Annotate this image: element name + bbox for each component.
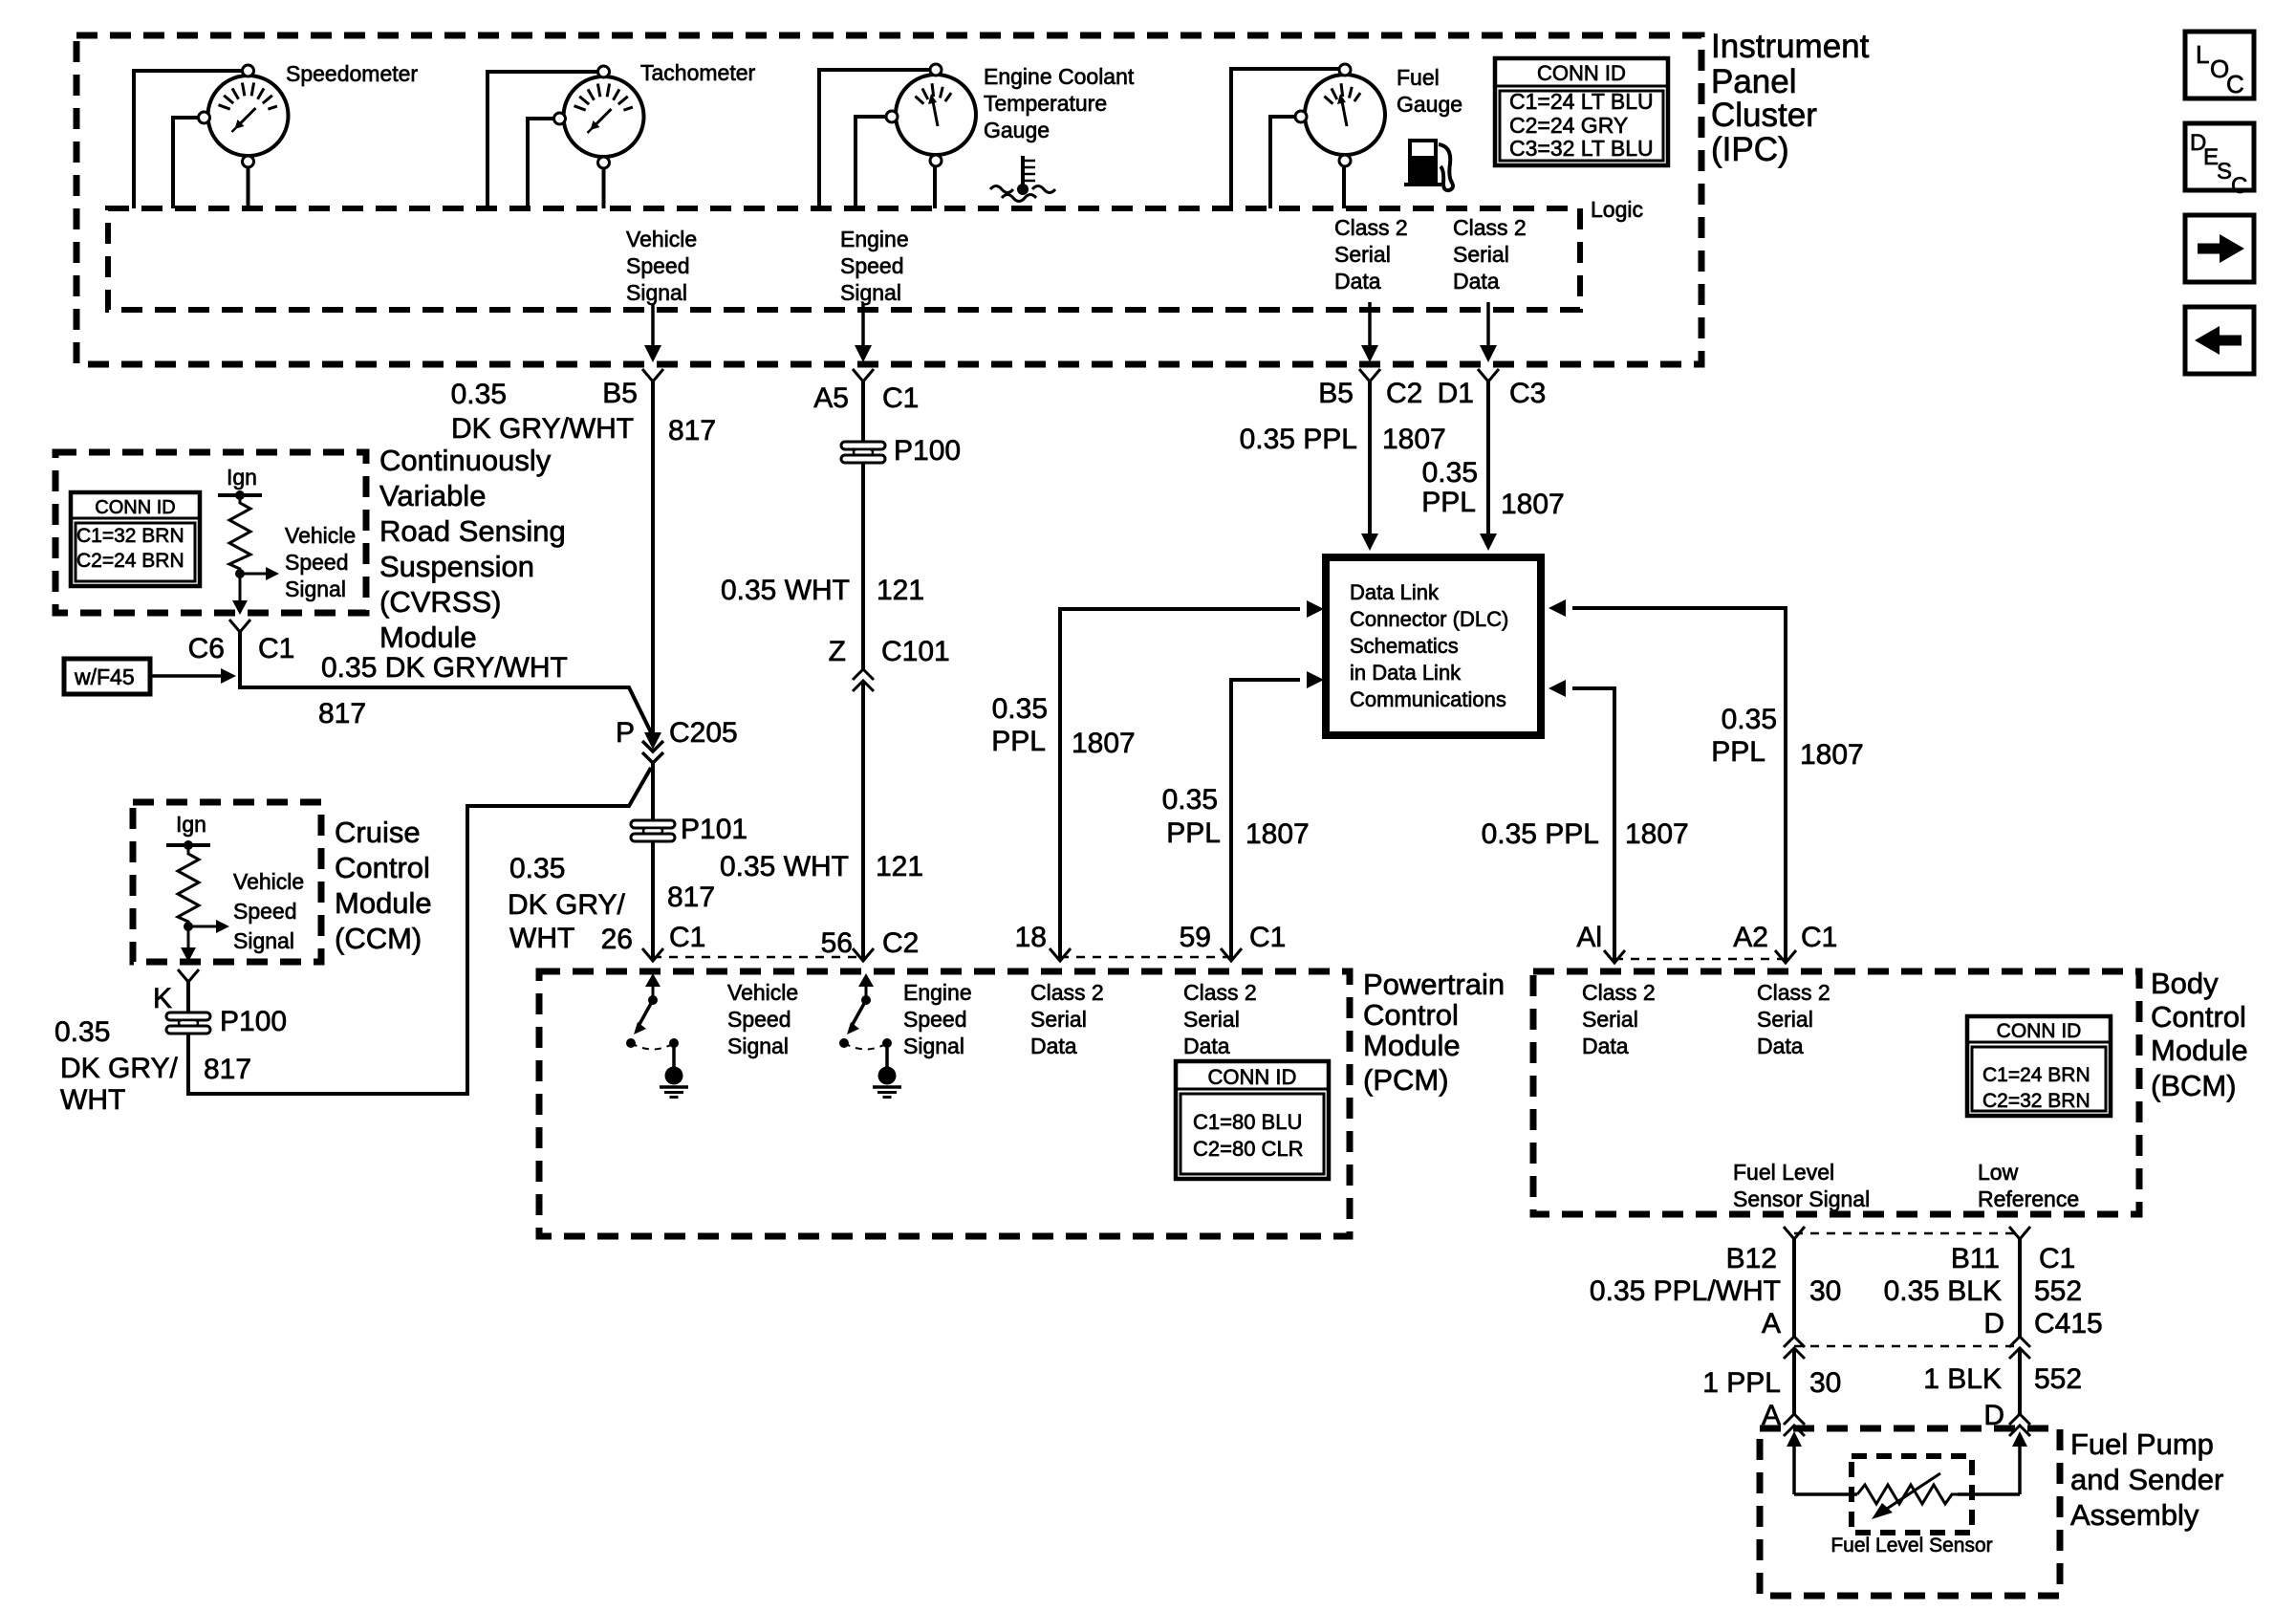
svg-text:18: 18 [1015, 922, 1047, 953]
svg-text:59: 59 [1180, 922, 1211, 953]
wire 1807 BCM pin A2 to DLC [1572, 608, 1786, 963]
svg-text:D: D [1983, 1308, 2004, 1339]
wire 817 from CCM K to P100 [186, 982, 190, 1012]
svg-text:Logic: Logic [1591, 197, 1643, 222]
component box: Fuel Level Sensor [1852, 1456, 1972, 1533]
block: w/F45 reference [64, 659, 150, 694]
svg-text:Vehicle: Vehicle [285, 523, 356, 548]
svg-text:P101: P101 [681, 814, 747, 845]
svg-text:PPL: PPL [1166, 817, 1221, 849]
wire speedometer top terminal to logic box [134, 71, 242, 208]
svg-text:0.35 PPL: 0.35 PPL [1482, 818, 1599, 850]
connector C205 chevrons (pin P) [642, 741, 663, 763]
wire 1807 BCM pin A1 to DLC [1572, 688, 1614, 963]
svg-text:0.35 PPL/WHT: 0.35 PPL/WHT [1590, 1275, 1781, 1307]
wire 817 from CVRSS C6 to C205 junction [240, 632, 651, 732]
label 0.35 PPL stacked (pin A2 wire) [1711, 704, 1777, 768]
svg-text:C1: C1 [669, 922, 705, 953]
svg-text:Fuel Pump: Fuel Pump [2070, 1427, 2214, 1461]
svg-text:C3: C3 [1509, 378, 1546, 409]
ground (vehicle speed switch) [660, 1067, 688, 1098]
label 0.35 PPL (pin 18 wire) [991, 693, 1048, 757]
svg-text:Speed: Speed [626, 253, 690, 278]
svg-text:Al: Al [1576, 922, 1602, 953]
label Class 2 Serial Data (BCM, pin A1) [1582, 980, 1656, 1058]
svg-text:C101: C101 [881, 636, 950, 667]
svg-text:Data Link: Data Link [1350, 580, 1440, 604]
svg-text:817: 817 [667, 882, 715, 913]
svg-text:Tachometer: Tachometer [640, 60, 756, 85]
svg-text:Engine: Engine [840, 227, 909, 251]
svg-text:Serial: Serial [1183, 1007, 1240, 1032]
gauge: Speedometer [199, 65, 289, 167]
label 0.35 PPL (pin 59 wire) [1162, 784, 1221, 849]
svg-text:Serial: Serial [1582, 1007, 1638, 1032]
connector Y at IPC pin D1 / C3 [1478, 369, 1499, 381]
svg-text:C1=32 BRN: C1=32 BRN [76, 525, 184, 547]
svg-text:CONN ID: CONN ID [1537, 61, 1626, 85]
svg-text:552: 552 [2034, 1363, 2082, 1395]
svg-text:Signal: Signal [626, 280, 687, 305]
wire 121 from C101 to PCM [861, 681, 865, 960]
svg-text:Low: Low [1978, 1160, 2019, 1185]
module title IPC [1711, 28, 1870, 168]
svg-text:Temperature: Temperature [984, 91, 1107, 116]
arrow from w/F45 to wire 817 [150, 674, 223, 678]
svg-text:Data: Data [1453, 269, 1500, 294]
svg-text:Module: Module [335, 886, 432, 920]
svg-text:817: 817 [204, 1054, 251, 1085]
svg-text:Signal: Signal [285, 577, 346, 601]
switch: vehicle speed signal input (PCM) [626, 973, 679, 1067]
svg-text:1807: 1807 [1625, 818, 1689, 850]
svg-text:C2=32 BRN: C2=32 BRN [1982, 1090, 2090, 1112]
svg-text:Control: Control [2151, 1000, 2246, 1034]
svg-text:Instrument: Instrument [1711, 28, 1870, 65]
svg-text:Class 2: Class 2 [1757, 980, 1830, 1005]
label Vehicle Speed Signal (CCM) [233, 869, 304, 953]
legend box DESC [2185, 123, 2254, 199]
CONN ID table (PCM): C1=80 BLU, C2=80 CLR [1176, 1061, 1329, 1179]
wire 817 from P101 to PCM [651, 841, 655, 960]
label 0.35 PPL stacked (wire to DLC right) [1421, 457, 1478, 518]
svg-text:Serial: Serial [1453, 242, 1509, 267]
label Class 2 Serial Data (PCM, pin 59) [1183, 980, 1257, 1058]
wire ECT gauge left terminal to logic box [856, 117, 886, 208]
svg-text:Speed: Speed [233, 899, 297, 924]
gauge: Fuel Gauge [1295, 64, 1385, 166]
wire fuel gauge top terminal to logic box [1231, 69, 1339, 208]
svg-text:B5: B5 [602, 378, 638, 409]
connector Y at PCM pin 26 [642, 948, 663, 961]
svg-text:C2=24 BRN: C2=24 BRN [76, 550, 184, 572]
wire 817 from CCM P100 to C205 junction [188, 768, 651, 1094]
label Class 2 Serial Data (IPC, right) [1453, 215, 1527, 294]
label Vehicle Speed Signal (IPC logic output) [626, 227, 697, 305]
svg-text:1807: 1807 [1245, 818, 1310, 850]
svg-text:C2=80 CLR: C2=80 CLR [1193, 1137, 1304, 1161]
svg-text:w/F45: w/F45 [74, 664, 135, 689]
label 0.35 DK GRY/ WHT (left of wire to PCM) [508, 853, 625, 954]
arrow: vehicle speed signal leaves CCM [187, 926, 190, 949]
svg-text:(IPC): (IPC) [1711, 131, 1789, 168]
wire tachometer bottom terminal to logic box [602, 168, 606, 208]
svg-text:C415: C415 [2034, 1308, 2103, 1339]
svg-text:Gauge: Gauge [1397, 92, 1462, 117]
svg-text:Assembly: Assembly [2070, 1498, 2199, 1532]
arrow into DLC left lower [1307, 671, 1324, 688]
label Vehicle Speed Signal (PCM) [727, 980, 798, 1058]
svg-text:0.35: 0.35 [992, 693, 1048, 725]
wire 121 from IPC to P100 [861, 381, 865, 442]
module title Fuel Pump and Sender Assembly [2070, 1427, 2223, 1532]
svg-text:Ign: Ign [227, 465, 257, 490]
link between PCM pins 18 and 59 [1060, 956, 1231, 959]
module box: Fuel Pump and Sender Assembly [1760, 1428, 2060, 1596]
connector C101 chevrons [853, 669, 874, 691]
arrow: vehicle speed signal leaves CVRSS [239, 574, 242, 602]
wire 817 from IPC to C205 [651, 381, 655, 732]
svg-text:Sensor Signal: Sensor Signal [1733, 1186, 1870, 1211]
svg-text:0.35: 0.35 [509, 853, 565, 884]
block: Data Link Connector (DLC) reference [1326, 557, 1541, 735]
wire tachometer top terminal to logic box [487, 72, 597, 208]
svg-text:1807: 1807 [1501, 489, 1565, 520]
svg-text:P100: P100 [894, 435, 961, 467]
label Class 2 Serial Data (PCM, pin 18) [1030, 980, 1104, 1058]
svg-text:0.35 WHT: 0.35 WHT [720, 851, 849, 882]
svg-text:(PCM): (PCM) [1363, 1063, 1449, 1097]
module box: Instrument Panel Cluster (IPC) [76, 35, 1701, 364]
svg-text:Control: Control [335, 851, 430, 884]
connector Y at PCM pin 59 [1221, 948, 1242, 961]
svg-text:in Data Link: in Data Link [1350, 661, 1462, 685]
svg-text:0.35: 0.35 [451, 379, 507, 410]
icon: coolant temperature symbol [990, 156, 1055, 202]
svg-text:Speed: Speed [285, 550, 349, 575]
svg-text:Panel: Panel [1711, 63, 1797, 100]
svg-text:PPL: PPL [1421, 487, 1476, 518]
arrow into DLC right lower [1549, 680, 1566, 697]
svg-text:CONN ID: CONN ID [95, 497, 175, 518]
svg-text:PPL: PPL [991, 726, 1046, 757]
grommet P100 (CCM wire) [166, 1012, 210, 1034]
wire 1807 PCM pin 18 to DLC [1060, 609, 1300, 961]
svg-text:Data: Data [1582, 1034, 1629, 1058]
svg-text:552: 552 [2034, 1275, 2082, 1307]
node Ign rail (CVRSS) [218, 490, 262, 500]
svg-text:Signal: Signal [233, 928, 294, 953]
svg-text:K: K [153, 983, 172, 1014]
module title BCM [2151, 967, 2248, 1102]
wire ECT gauge bottom terminal to logic box [933, 166, 937, 208]
svg-text:P: P [616, 717, 635, 749]
connector Y at IPC pin B5 / C2 [1359, 369, 1380, 381]
svg-text:0.35 PPL: 0.35 PPL [1240, 424, 1357, 455]
label Low Reference (BCM) [1978, 1160, 2079, 1211]
arrow into DLC top right [1480, 533, 1497, 551]
svg-text:CONN ID: CONN ID [1997, 1020, 2082, 1042]
svg-text:56: 56 [821, 927, 853, 959]
svg-text:30: 30 [1809, 1275, 1841, 1307]
svg-text:Engine Coolant: Engine Coolant [984, 64, 1135, 89]
svg-text:0.35: 0.35 [1422, 457, 1478, 489]
label 0.35 DK GRY/ WHT (CCM wire) [54, 1016, 178, 1116]
svg-text:C1: C1 [1249, 922, 1286, 953]
connector Y at IPC for circuit 817 (pin B5) [642, 369, 663, 381]
svg-text:C2: C2 [882, 927, 919, 959]
svg-text:A: A [1762, 1308, 1781, 1339]
arrow: class 2 serial data leaves IPC (right) [1486, 302, 1490, 347]
svg-text:C2=24 GRY: C2=24 GRY [1509, 113, 1628, 138]
svg-text:Cluster: Cluster [1711, 97, 1817, 134]
svg-text:DK GRY/WHT: DK GRY/WHT [451, 413, 634, 445]
svg-text:Ign: Ign [176, 812, 206, 837]
svg-text:C1: C1 [258, 633, 294, 664]
svg-text:1807: 1807 [1072, 728, 1136, 759]
wire 30 from BCM B12 to C415 [1792, 1239, 1796, 1337]
arrow into DLC top left [1361, 533, 1378, 551]
wire 30 from C415 to fuel pump assembly [1792, 1348, 1796, 1414]
svg-text:Vehicle: Vehicle [626, 227, 697, 251]
svg-text:C1=24 LT BLU: C1=24 LT BLU [1509, 89, 1654, 114]
svg-text:1807: 1807 [1800, 739, 1864, 771]
label Engine Coolant Temperature Gauge [984, 64, 1135, 142]
link between PCM pins 26 and 56 [653, 956, 863, 959]
wire ECT gauge top terminal to logic box [819, 70, 930, 208]
arrow into DLC right upper [1549, 599, 1566, 617]
svg-text:Class 2: Class 2 [1334, 215, 1408, 240]
svg-text:A2: A2 [1733, 922, 1768, 953]
svg-text:Signal: Signal [840, 280, 901, 305]
svg-text:Body: Body [2151, 967, 2219, 1000]
svg-text:C1: C1 [882, 382, 919, 414]
svg-text:121: 121 [877, 575, 924, 606]
svg-text:121: 121 [876, 851, 923, 882]
connector C415 chevrons (left) [1784, 1337, 1805, 1359]
arrow: class 2 serial data leaves IPC (left) [1368, 302, 1372, 347]
svg-text:CONN ID: CONN ID [1208, 1065, 1297, 1089]
svg-text:A5: A5 [813, 382, 849, 414]
junction dot (CCM signal) [184, 922, 193, 931]
wire 1807 PCM pin 59 to DLC [1231, 680, 1300, 961]
svg-text:C3=32 LT BLU: C3=32 LT BLU [1509, 136, 1654, 161]
svg-text:Module: Module [379, 620, 477, 654]
svg-text:(BCM): (BCM) [2151, 1069, 2237, 1102]
svg-text:817: 817 [668, 415, 716, 446]
svg-text:1 BLK: 1 BLK [1923, 1363, 2002, 1395]
CONN ID table (CVRSS): C1=32 BRN, C2=24 BRN [71, 492, 200, 586]
module title CCM [335, 816, 432, 955]
link between BCM pins B12 and B11 [1794, 1232, 2020, 1235]
arrow: vehicle speed signal leaves IPC [651, 304, 655, 347]
arrow into C205 [644, 732, 661, 750]
svg-text:Communications: Communications [1350, 687, 1506, 711]
svg-text:C: C [2231, 173, 2247, 199]
label Fuel Gauge [1397, 65, 1462, 117]
svg-text:C6: C6 [188, 633, 225, 664]
svg-text:C205: C205 [669, 717, 738, 749]
svg-text:Speed: Speed [903, 1007, 967, 1032]
svg-text:Speedometer: Speedometer [286, 61, 418, 86]
connector Y at BCM pin A2 [1775, 950, 1796, 963]
svg-text:DK GRY/: DK GRY/ [508, 889, 625, 921]
svg-text:0.35 DK GRY/WHT: 0.35 DK GRY/WHT [321, 652, 568, 684]
svg-text:Variable: Variable [379, 479, 486, 512]
svg-text:26: 26 [601, 924, 633, 955]
wire 552 from C415 to fuel pump assembly [2018, 1348, 2022, 1414]
svg-text:C1=24 BRN: C1=24 BRN [1982, 1064, 2090, 1086]
CONN ID table (BCM): C1=24 BRN, C2=32 BRN [1967, 1016, 2111, 1116]
connector chevrons at fuel pump pin D [2009, 1414, 2030, 1436]
svg-text:Vehicle: Vehicle [727, 980, 798, 1005]
svg-text:(CVRSS): (CVRSS) [379, 585, 501, 619]
svg-text:Data: Data [1183, 1034, 1230, 1058]
label Class 2 Serial Data (IPC, left) [1334, 215, 1408, 294]
svg-text:Class 2: Class 2 [1582, 980, 1656, 1005]
connector Y at CVRSS pin C6 / C1 [229, 620, 250, 632]
svg-text:C1: C1 [1801, 922, 1837, 953]
svg-text:Fuel Level Sensor: Fuel Level Sensor [1830, 1535, 1992, 1557]
svg-text:0.35: 0.35 [1722, 704, 1777, 735]
svg-text:0.35: 0.35 [1162, 784, 1218, 816]
svg-text:Serial: Serial [1757, 1007, 1813, 1032]
svg-text:B5: B5 [1318, 378, 1354, 409]
connector Y at BCM pin B11 [2009, 1227, 2030, 1239]
svg-text:Speed: Speed [840, 253, 904, 278]
module title PCM [1363, 968, 1505, 1097]
svg-text:Module: Module [2151, 1034, 2248, 1067]
svg-text:817: 817 [318, 698, 366, 729]
svg-text:Engine: Engine [903, 980, 972, 1005]
svg-text:Serial: Serial [1334, 242, 1391, 267]
svg-text:Road Sensing: Road Sensing [379, 514, 566, 548]
wire 1807 from IPC to DLC (right) [1486, 381, 1490, 533]
svg-text:C1: C1 [2039, 1243, 2075, 1274]
resistor (CVRSS pull-up) [229, 495, 250, 574]
gauge: Tachometer [554, 66, 644, 168]
svg-text:Speed: Speed [727, 1007, 791, 1032]
icon: fuel pump symbol [1404, 139, 1453, 190]
svg-text:Connector (DLC): Connector (DLC) [1350, 607, 1508, 631]
svg-text:1 PPL: 1 PPL [1702, 1367, 1781, 1399]
arrow into fuel pump (pin D side) [2018, 1445, 2022, 1494]
grommet P101 [631, 820, 675, 841]
svg-text:Data: Data [1757, 1034, 1804, 1058]
svg-text:Serial: Serial [1030, 1007, 1087, 1032]
svg-text:Signal: Signal [727, 1034, 789, 1058]
svg-text:Continuously: Continuously [379, 444, 552, 477]
svg-text:Module: Module [1363, 1029, 1461, 1062]
arrow into DLC left upper [1307, 600, 1324, 618]
wire fuel gauge bottom terminal to logic box [1342, 165, 1346, 208]
svg-text:and Sender: and Sender [2070, 1463, 2223, 1496]
svg-text:B11: B11 [1951, 1243, 2000, 1274]
svg-text:Data: Data [1334, 269, 1381, 294]
label Engine Speed Signal (IPC logic output) [840, 227, 909, 305]
svg-text:(CCM): (CCM) [335, 922, 422, 955]
legend box forward arrow [2185, 215, 2254, 282]
grommet P100 (engine speed wire) [841, 442, 885, 463]
wire 552 from BCM B11 to C415 [2018, 1239, 2022, 1337]
svg-text:Fuel: Fuel [1397, 65, 1440, 90]
wire 121 from P100 to C101 [861, 463, 865, 669]
svg-text:Vehicle: Vehicle [233, 869, 304, 894]
svg-text:B12: B12 [1726, 1243, 1777, 1274]
switch: engine speed signal input (PCM) [839, 973, 892, 1067]
junction dot (CVRSS signal) [235, 569, 245, 578]
svg-text:L: L [2196, 40, 2209, 69]
arrow to Vehicle Speed Signal label (CCM) [188, 925, 218, 928]
link between BCM pins A1 and A2 [1614, 958, 1786, 961]
svg-text:Gauge: Gauge [984, 118, 1050, 142]
svg-text:C2: C2 [1386, 378, 1422, 409]
svg-text:Data: Data [1030, 1034, 1077, 1058]
svg-text:C1=80 BLU: C1=80 BLU [1193, 1110, 1302, 1134]
svg-text:P100: P100 [220, 1006, 287, 1037]
label Class 2 Serial Data (BCM, pin A2) [1757, 980, 1830, 1058]
variable resistor: fuel level sensor element [1857, 1473, 1958, 1519]
ground (engine speed switch) [873, 1067, 901, 1098]
svg-text:30: 30 [1809, 1367, 1841, 1399]
wire 1807 from IPC to DLC (left) [1368, 381, 1372, 533]
svg-text:C: C [2226, 70, 2244, 98]
label Engine Speed Signal (PCM) [903, 980, 972, 1058]
svg-text:Class 2: Class 2 [1183, 980, 1257, 1005]
wire tachometer left terminal to logic box [528, 119, 553, 208]
svg-text:Signal: Signal [903, 1034, 964, 1058]
arrow: engine speed signal leaves IPC [861, 304, 865, 347]
connector C415 chevrons (right) [2009, 1337, 2030, 1359]
svg-text:Fuel Level: Fuel Level [1733, 1160, 1834, 1185]
svg-text:S: S [2217, 159, 2232, 185]
svg-text:WHT: WHT [509, 923, 574, 954]
connector Y at BCM pin B12 [1784, 1227, 1805, 1239]
svg-text:WHT: WHT [60, 1084, 125, 1116]
svg-text:Cruise: Cruise [335, 816, 421, 849]
wire speedometer bottom terminal to logic box [247, 167, 250, 208]
connector Y at PCM pin 18 [1050, 948, 1071, 961]
link at C415 [1794, 1345, 2020, 1348]
arrow to Vehicle Speed Signal label (CVRSS) [240, 573, 268, 576]
svg-text:0.35: 0.35 [54, 1016, 110, 1048]
connector Y at IPC for circuit 121 (pin A5) [853, 369, 874, 381]
svg-text:Suspension: Suspension [379, 550, 534, 583]
legend box back arrow [2185, 307, 2254, 374]
connector Y at CCM pin K [178, 969, 199, 982]
svg-text:Control: Control [1363, 998, 1459, 1032]
module box: Body Control Module (BCM) [1533, 971, 2139, 1214]
resistor (CCM pull-up) [178, 845, 199, 926]
wire to fuel level sensor (right) [1958, 1492, 2020, 1496]
module box: CVRSS [55, 452, 366, 613]
connector Y at BCM pin A1 [1604, 950, 1625, 963]
svg-text:Reference: Reference [1978, 1186, 2079, 1211]
logic box inside IPC [108, 208, 1580, 310]
svg-text:D1: D1 [1438, 378, 1474, 409]
wire 817 from C205 to P101 [651, 762, 655, 820]
svg-text:0.35 BLK: 0.35 BLK [1884, 1275, 2002, 1307]
wire fuel gauge left terminal to logic box [1270, 117, 1295, 208]
svg-text:1807: 1807 [1382, 424, 1446, 455]
svg-text:Powertrain: Powertrain [1363, 968, 1505, 1001]
connector Y at PCM pin 56 [853, 948, 874, 961]
svg-text:Class 2: Class 2 [1453, 215, 1527, 240]
CONN ID table (IPC): C1=24 LT BLU, C2=24 GRY, C3=32 LT BLU [1495, 58, 1668, 165]
legend box LOC [2185, 32, 2254, 98]
label Vehicle Speed Signal (CVRSS) [285, 523, 356, 601]
gauge: Engine Coolant Temperature Gauge [886, 64, 976, 166]
